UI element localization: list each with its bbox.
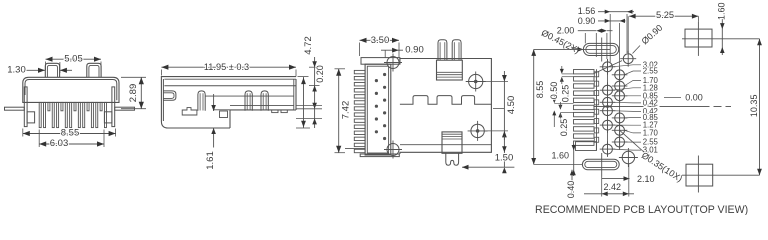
svg-text:1.50: 1.50: [495, 153, 514, 164]
svg-text:11.95 ± 0.3: 11.95 ± 0.3: [204, 62, 249, 72]
svg-text:6.03: 6.03: [50, 138, 69, 149]
svg-text:2.10: 2.10: [637, 174, 655, 184]
svg-text:0.90: 0.90: [578, 16, 596, 26]
svg-text:1.60: 1.60: [552, 151, 570, 161]
svg-text:RECOMMENDED PCB LAYOUT(TOP VIE: RECOMMENDED PCB LAYOUT(TOP VIEW): [535, 204, 748, 215]
svg-text:10.35: 10.35: [749, 95, 759, 118]
svg-text:7.42: 7.42: [340, 101, 351, 120]
svg-text:2.42: 2.42: [604, 182, 622, 192]
svg-text:5.05: 5.05: [64, 53, 83, 64]
svg-text:5.25: 5.25: [656, 10, 674, 20]
svg-text:0.40: 0.40: [566, 181, 576, 199]
svg-text:4.72: 4.72: [303, 36, 314, 55]
svg-text:2.89: 2.89: [128, 84, 139, 103]
svg-text:1.56: 1.56: [578, 6, 596, 16]
svg-text:1.60: 1.60: [716, 2, 726, 20]
svg-text:2.55: 2.55: [643, 67, 659, 76]
svg-text:0.25: 0.25: [560, 85, 570, 103]
svg-text:1.61: 1.61: [205, 151, 216, 170]
svg-text:0.90: 0.90: [405, 44, 424, 55]
svg-text:0.25: 0.25: [559, 119, 569, 137]
svg-text:8.55: 8.55: [535, 81, 545, 99]
svg-text:2.00: 2.00: [557, 26, 575, 36]
svg-text:1.30: 1.30: [7, 64, 26, 75]
svg-text:0.50: 0.50: [549, 82, 559, 100]
svg-text:4.50: 4.50: [506, 96, 517, 115]
svg-text:0.20: 0.20: [315, 65, 325, 83]
svg-text:3.50: 3.50: [371, 35, 390, 46]
svg-text:1.70: 1.70: [643, 128, 659, 137]
svg-text:8.55: 8.55: [61, 128, 80, 139]
svg-text:0.00: 0.00: [685, 92, 703, 102]
